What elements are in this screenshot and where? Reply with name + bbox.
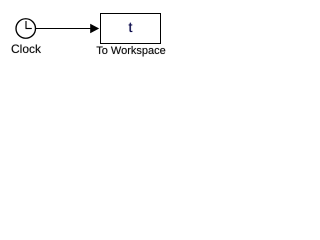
clock block icon U1 (Clock) (16, 19, 36, 39)
wire from Clock to To Workspace (36, 28, 91, 30)
clock minute hand (12 o'clock) (25, 21, 27, 29)
To Workspace label (59, 45, 203, 57)
clock face circle (16, 19, 36, 39)
Clock label (0, 42, 52, 56)
To Workspace block body (101, 14, 161, 44)
arrowhead at To Workspace input port (90, 24, 99, 34)
signal name t inside block (100, 18, 161, 37)
clock hour hand (3 o'clock) (26, 28, 32, 30)
